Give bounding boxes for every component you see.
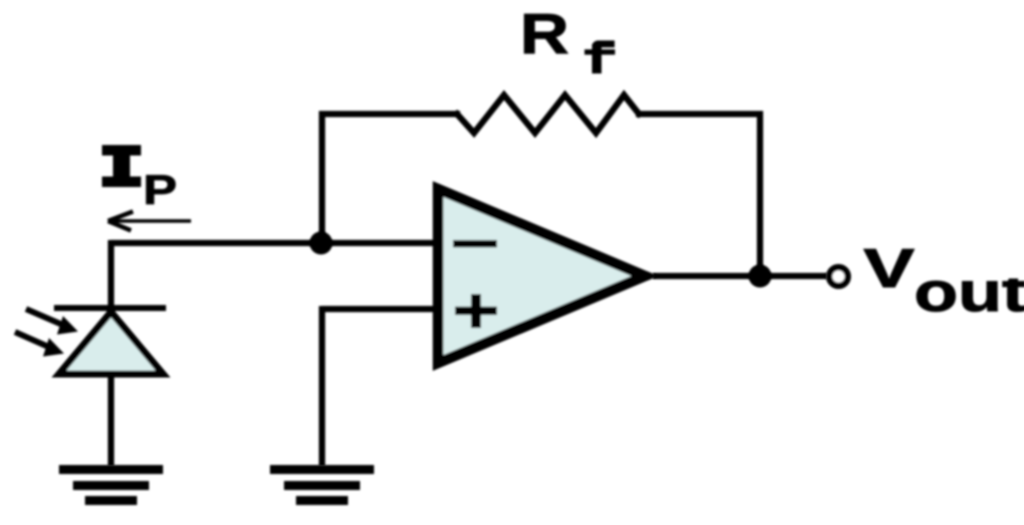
svg-text:P: P xyxy=(143,166,177,213)
wire: photodiode cathode lead to ground xyxy=(108,374,114,466)
op-amp plus sign xyxy=(455,294,497,328)
photodiode D1 cathode bar xyxy=(54,305,166,311)
ground (right, under non-inverting input) xyxy=(270,465,374,505)
wire: feedback left vertical leg and top-left horizontal xyxy=(322,114,457,246)
current arrow Ip xyxy=(108,212,191,231)
wire: op-amp output to terminal xyxy=(653,273,827,279)
wire: inverting input from photodiode to op-amp xyxy=(111,240,437,246)
svg-text:R: R xyxy=(520,3,569,67)
svg-text:out: out xyxy=(914,260,1024,323)
ground (left, under photodiode) xyxy=(59,465,163,505)
wire: non-inverting vertical leg to ground xyxy=(319,306,325,466)
op-amp U1 triangle xyxy=(438,189,645,363)
photon arrow 2 xyxy=(15,332,64,357)
photon arrow 1 xyxy=(26,309,78,335)
label Rf : subscript f xyxy=(585,41,616,74)
node: output junction dot xyxy=(749,265,772,288)
svg-text:V: V xyxy=(864,237,915,299)
wire: feedback top-right horizontal and right vertical leg xyxy=(639,114,760,276)
photodiode D1 triangle xyxy=(59,312,163,374)
node: inverting input junction dot xyxy=(310,232,333,255)
resistor R_f zigzag xyxy=(457,95,639,133)
wire: non-inverting input horizontal xyxy=(322,306,437,312)
label Ip : letter I (serif style) xyxy=(102,145,141,187)
op-amp minus sign xyxy=(453,240,497,248)
wire: photodiode anode lead down xyxy=(108,240,114,311)
terminal: Vout open circle xyxy=(829,267,848,286)
label Vout : subscript out xyxy=(914,260,1024,323)
